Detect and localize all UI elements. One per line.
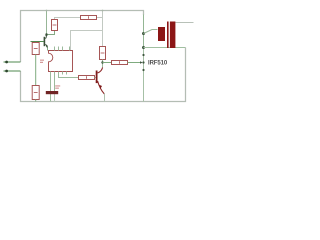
transistor Q1 bar: [44, 37, 46, 46]
transistor Q2 bar: [96, 71, 98, 84]
transistor Q2 emitter: [98, 81, 105, 94]
resistor R2: [81, 16, 97, 20]
junction dot x46 top: [46, 10, 48, 12]
wire feed y16: [55, 18, 81, 20]
tick R1: [53, 24, 57, 26]
resistor R1: [52, 20, 58, 31]
tick R4: [34, 92, 38, 94]
transistor Q1 collector: [45, 35, 46, 38]
wire IC pin to gate resistor: [59, 72, 79, 78]
wire diagonal to speaker: [144, 30, 158, 34]
speaker LS1: [158, 27, 165, 41]
ground label red: [55, 85, 60, 86]
junction dot drain node: [101, 61, 103, 63]
wire divider column: [35, 55, 37, 86]
wire speaker bottom run: [144, 47, 186, 49]
wire top rail: [21, 11, 144, 63]
wire bottom rail loop: [21, 48, 186, 102]
tick R3: [34, 48, 38, 50]
junction dots: [142, 32, 145, 35]
ground symbol: [46, 91, 58, 94]
IC top pin stubs: [54, 47, 56, 51]
wire IC pin to gnd: [54, 72, 56, 92]
junction dot x102 top: [102, 10, 104, 12]
wire collector node y34: [47, 31, 55, 35]
net vertical x143: [143, 15, 145, 48]
arrowhead: [140, 61, 143, 64]
transistor Q1 emitter: [45, 44, 47, 48]
label red R3: [40, 60, 44, 61]
IC bottom pin stubs: [62, 72, 64, 75]
wire y30 run: [71, 31, 103, 51]
wire IC pin to rail: [50, 72, 52, 102]
wire drain node to R7: [103, 62, 112, 64]
resistor R4: [32, 86, 39, 100]
resistor R6 drain: [100, 47, 106, 60]
wire base Q1: [31, 41, 44, 43]
wire x102 vertical: [102, 11, 104, 47]
wire supply drop x46: [46, 11, 48, 35]
transistor Q2 collector: [98, 67, 103, 73]
wire R7 to net: [128, 62, 141, 64]
terminal pin P1: [4, 61, 21, 63]
tick R7: [119, 61, 121, 63]
resistor R7: [112, 61, 128, 65]
terminal pin P2: [4, 70, 21, 72]
IC U1 body: [49, 51, 73, 72]
wire IC top right pin: [69, 47, 71, 51]
tick R2: [88, 16, 90, 18]
svg-text:IRF510: IRF510: [148, 61, 168, 67]
resistor R5 gate: [79, 76, 95, 80]
junction dot x46 y34: [45, 33, 47, 35]
wire speaker pin top: [176, 22, 194, 24]
tick R6: [101, 52, 105, 54]
resistor R3: [32, 43, 39, 55]
tick R5: [86, 76, 88, 78]
